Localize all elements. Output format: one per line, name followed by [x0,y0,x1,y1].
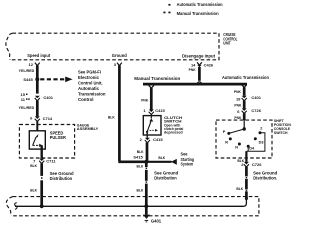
ground bus wire [15,198,246,206]
svg-text:PNK: PNK [234,116,242,120]
note: See PGM-FI Electronic Control Unit, Automatic Transmission Control [78,70,106,103]
svg-text:Manual Transmission: Manual Transmission [134,76,180,81]
svg-text:Automatic Transmission: Automatic Transmission [222,75,269,80]
svg-text:14: 14 [191,62,196,67]
svg-text:C726: C726 [252,162,262,167]
connector C726 pin 6 [237,108,261,114]
speed pulser box [29,131,45,149]
label: SPEED PULSER [50,130,66,140]
svg-text:Electronic: Electronic [78,75,100,80]
contact 2 and link bracket [246,126,265,151]
connector C714 pin 6 [30,116,53,122]
wire: shift switch output [245,151,247,162]
legend marker: manual transmission (double dash) [163,12,170,14]
svg-text:UNIT: UNIT [223,41,231,46]
contact R [225,137,232,144]
contact P [223,130,231,135]
svg-text:PNK: PNK [234,104,242,108]
contact D4 [247,145,255,151]
wire: YEL/RED speed input (pin 12 to S445) [19,65,38,93]
label: SHIFT POSITION CONSOLE SWITCH [274,119,291,135]
bus junction: left wire [40,204,44,208]
svg-text:19: 19 [236,96,241,101]
automatic branch terminal under bar [242,85,247,88]
note: See Ground Distribution (center) [154,171,178,181]
legend text: Automatic Transmission [177,2,223,7]
svg-text:Distribution: Distribution [50,176,73,181]
bus continuation squiggle [15,203,17,210]
svg-text:Control: Control [78,97,94,102]
wire: manual/automatic branch bar [143,83,247,86]
ground G401 [143,215,162,224]
connector C401 pin 19 [236,95,262,101]
pin label: Ground [112,53,127,58]
connector C711 pin 7 [33,158,56,163]
pin 3 terminal fork (ground) [114,62,122,67]
svg-text:Speed input: Speed input [27,53,51,58]
svg-text:Distribution: Distribution [154,175,177,180]
svg-text:PNK: PNK [141,99,149,103]
ground distribution bus dashed outline [6,197,259,216]
svg-text:SWITCH: SWITCH [274,131,288,135]
wire: BLK (C711 to ground bus) [30,163,42,206]
svg-text:N: N [235,145,238,149]
label: CLUTCH SWITCH (Open with clutch pedal depressed) [164,116,183,135]
connector C415 pin 1 [143,108,165,114]
svg-text:Distribution.: Distribution. [253,175,277,180]
svg-text:P: P [223,130,226,134]
note: See Ground Distribution (left) [50,171,74,181]
svg-text:D3: D3 [259,140,264,144]
wire: PNK into shift position switch [234,113,244,120]
connector C415 pin 2 [140,133,164,143]
svg-text:BLK: BLK [30,164,37,168]
wire: PNK to C401 [234,87,244,96]
clutch switch box [143,116,161,135]
svg-text:PNK: PNK [189,68,197,72]
svg-text:C415: C415 [155,108,165,113]
legend text: Manual Transmission [177,11,219,16]
pin codes 15 (automatic) / 11 (manual) [21,92,30,102]
svg-text:C726: C726 [251,108,261,113]
wire: PNK to clutch switch [141,88,151,110]
svg-text:2: 2 [260,126,262,130]
svg-text:PNK: PNK [234,90,242,94]
svg-text:YEL/RED: YEL/RED [19,106,35,110]
svg-text:Manual Transmission: Manual Transmission [177,11,219,16]
label: Manual Transmission [134,76,180,81]
svg-text:S415: S415 [133,155,143,160]
splice S415 [133,155,148,164]
svg-text:C426: C426 [204,63,214,68]
svg-text:G401: G401 [151,219,162,224]
splice S445 [23,77,39,82]
pin 12 terminal fork (speed input) [29,62,40,67]
svg-text:C711: C711 [46,158,56,163]
svg-text:C714: C714 [43,116,53,121]
label: CRUISE CONTROL UNIT [223,32,237,46]
svg-text:BLK: BLK [158,156,165,160]
bus junction: right wire [245,197,248,200]
svg-text:Disengage input: Disengage input [182,53,216,58]
svg-text:C401: C401 [43,95,53,100]
svg-text:BLK: BLK [108,116,115,120]
contact N [235,143,241,150]
label: GAUGE ASSEMBLY [77,123,99,130]
wire: PNK C401 to C726 [234,101,244,109]
svg-text:Ground: Ground [112,53,127,58]
wire: BLK clutch switch to S415 [137,143,147,162]
clutch switch symbol [146,114,158,133]
svg-text:C401: C401 [251,95,261,100]
clutch branch terminal under bar [149,85,154,88]
wire: BLK cruise ground (pin 3 down to S415) [108,65,146,161]
label: Automatic Transmission [222,75,269,80]
svg-text:YEL/RED: YEL/RED [19,69,35,73]
svg-text:BLK: BLK [137,188,144,192]
svg-text:BLK: BLK [236,187,243,191]
bus junction: center wire [144,204,148,208]
wire: YEL/RED (C401 to C714) [19,101,38,117]
wire: bus to ground G401 [145,206,148,214]
svg-text:R: R [225,140,228,144]
svg-text:Control Unit,: Control Unit, [78,81,103,86]
svg-text:C415: C415 [153,137,163,142]
svg-text:ASSEMBLY: ASSEMBLY [77,127,99,131]
svg-text:depressed: depressed [164,131,183,135]
svg-text:Automatic: Automatic [78,86,100,91]
wire: BLK S415 to ground bus [137,163,148,206]
cruise control unit dashed box [6,33,219,60]
connector C401 (speed wire) [35,95,54,101]
connector C726 pin 2 (output) [237,159,262,167]
svg-text:12: 12 [29,62,34,67]
note: See Starting System [181,152,195,167]
svg-text:Automatic Transmission: Automatic Transmission [177,2,223,7]
pin label: Speed input [27,53,51,58]
pin 14 terminal and connector C426 (disengage input) [191,62,214,67]
note: See Ground Distribution (right) [253,170,277,180]
shift switch common node [243,120,246,131]
wire and arrow to See Starting System [148,156,177,165]
svg-text:PULSER: PULSER [50,135,66,140]
svg-text:BLK: BLK [137,165,144,169]
wire: speed pulser output [41,145,43,158]
gauge assembly dashed box [19,125,74,159]
legend marker: automatic transmission (single dash) [168,4,170,6]
svg-text:BLK: BLK [30,189,37,193]
wire: PNK disengage input [189,67,202,84]
svg-text:System: System [181,162,194,167]
contact D3 [254,137,264,144]
svg-text:See PGM-FI: See PGM-FI [78,70,101,75]
wire into speed pulser [36,121,38,131]
speed pulser symbol [33,134,43,147]
shift switch wiper arm to P [229,129,244,133]
svg-text:BLK: BLK [137,150,144,154]
wire: BLK shift switch to ground bus [236,167,247,199]
dashed reference arrow from S445 [40,77,72,83]
pin label: Disengage input [182,53,216,58]
svg-text:Transmission: Transmission [78,92,106,97]
svg-text:S445: S445 [23,77,33,82]
shift position console switch dashed box [216,120,272,158]
